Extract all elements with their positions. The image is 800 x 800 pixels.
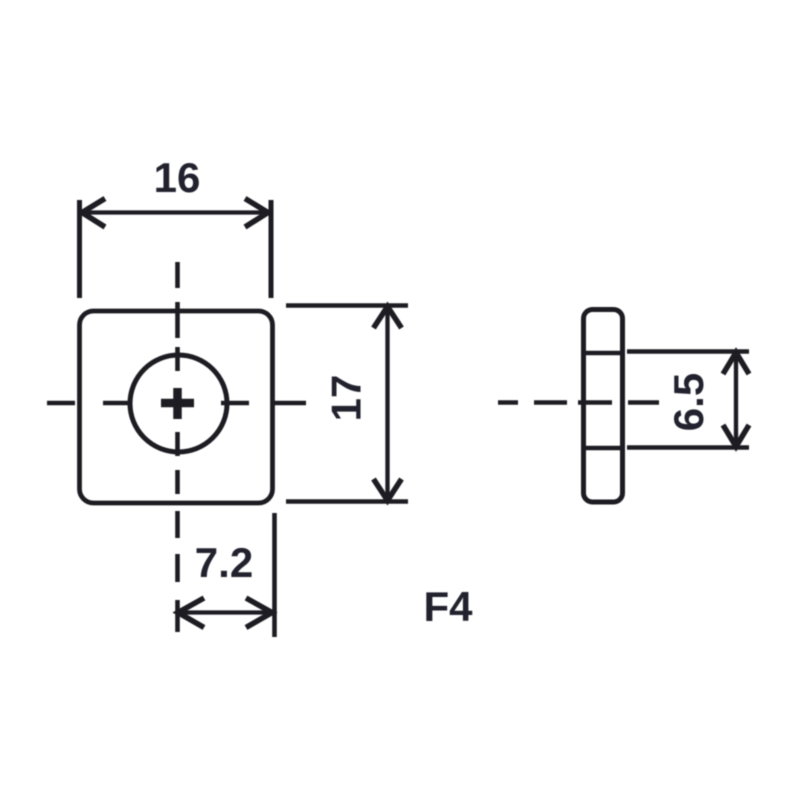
svg-text:6.5: 6.5	[665, 373, 712, 431]
svg-text:F4: F4	[423, 583, 473, 630]
svg-text:16: 16	[154, 154, 201, 201]
svg-text:17: 17	[323, 375, 370, 422]
svg-text:7.2: 7.2	[195, 539, 253, 586]
